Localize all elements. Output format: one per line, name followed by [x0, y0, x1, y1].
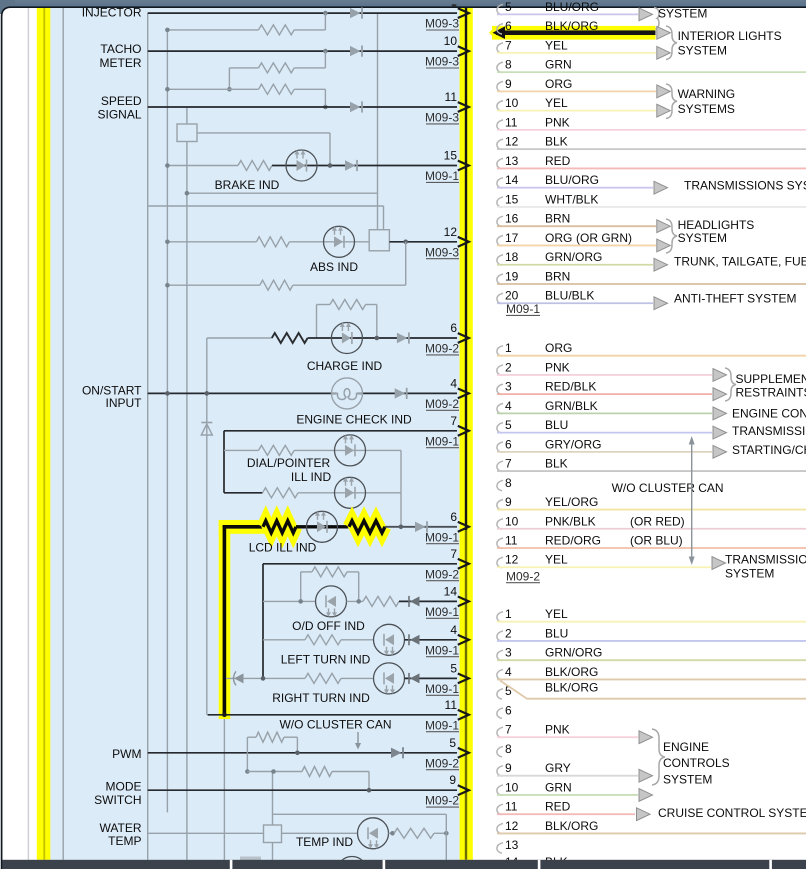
- svg-text:BLK: BLK: [545, 457, 568, 471]
- arrow exit turn-loop top: [458, 559, 469, 569]
- svg-text:5: 5: [505, 418, 512, 432]
- svg-text:YEL: YEL: [545, 38, 568, 52]
- LED TEMP2 bottom cut circle: [337, 857, 368, 869]
- left margin divider line: [27, 8, 29, 860]
- destination arrow pin5 b2 TRANSMISSION: [713, 426, 727, 439]
- left page-fold yellow band: [37, 8, 51, 860]
- svg-text:CRUISE CONTROL SYSTEM: CRUISE CONTROL SYSTEM: [658, 806, 806, 820]
- wire vertical x=369 mid row to MODE: [368, 772, 370, 791]
- direction arrow left at pin 6: [493, 26, 506, 39]
- wire injector pull loop horizontal y=29.9: [167, 29, 258, 31]
- left page-fold seam wire: [43, 8, 45, 860]
- svg-text:TRUNK, TAILGATE, FUEL DOOR: TRUNK, TAILGATE, FUEL DOOR: [674, 254, 806, 268]
- svg-text:ORG: ORG: [545, 341, 572, 355]
- bus wire B6 x=272.5 lower: [272, 843, 274, 860]
- diode D5 on CHARGE wire: [397, 333, 408, 343]
- svg-text:7: 7: [450, 414, 457, 428]
- wire BLU pin 2: [497, 640, 806, 642]
- svg-text:4: 4: [450, 623, 457, 637]
- wire LCD black to LED: [296, 525, 306, 528]
- svg-text:TRANSMISSIONS SYSTEM: TRANSMISSIONS SYSTEM: [684, 179, 806, 193]
- arrow exit PWM: [458, 748, 469, 758]
- wire O/D loop vertical right x=358.7: [358, 572, 360, 602]
- junction dot at (392.5,833.3): [390, 831, 395, 836]
- svg-text:(OR GRN): (OR GRN): [576, 231, 632, 245]
- wire bus B7 x=247.4 PWM to mid row: [246, 753, 248, 772]
- arrow exit LEFT TURN: [458, 635, 469, 645]
- destination arrow pin9 b3: [639, 769, 653, 782]
- wire BLK/ORG pin 12: [497, 832, 806, 834]
- svg-text:W/O CLUSTER CAN: W/O CLUSTER CAN: [279, 718, 391, 732]
- wire ABS lower loop y=285.2: [167, 284, 259, 286]
- bus wire B3 x=186.9 upper: [186, 107, 188, 124]
- svg-text:SYSTEM: SYSTEM: [678, 231, 727, 245]
- resistor R11 LCD highlighted: [263, 521, 296, 533]
- LED LEFT TURN IND: [374, 624, 405, 655]
- svg-text:(OR BLU): (OR BLU): [630, 534, 683, 548]
- svg-text:19: 19: [505, 269, 519, 283]
- svg-text:8: 8: [505, 476, 512, 490]
- svg-text:TRANSMISSION: TRANSMISSION: [725, 553, 806, 567]
- svg-text:RESTRAINTS: RESTRAINTS: [736, 385, 806, 399]
- wire O/D LED to resistor: [347, 600, 364, 602]
- bus wire B2 x=167.4: [166, 30, 168, 813]
- wire BLK/ORG pin 5 b3 diagonal: [500, 681, 806, 699]
- svg-text:STARTING/CHARGING: STARTING/CHARGING: [732, 443, 806, 457]
- svg-text:6: 6: [505, 437, 512, 451]
- svg-text:9: 9: [505, 77, 512, 91]
- LED LCD ILL IND: [307, 511, 338, 542]
- wire RIGHT TURN LED to exit black: [405, 677, 458, 679]
- arrow exit W/O CLUSTER CAN: [458, 710, 469, 720]
- highlight burst pin 6 start: [489, 27, 501, 39]
- wire BRN pin 16: [497, 225, 656, 227]
- wire speed loop vertical x=325.4: [324, 89, 326, 107]
- resistor R16 RIGHT TURN: [305, 673, 341, 683]
- wire LEFT TURN resistor to LED: [341, 639, 374, 641]
- resistor R3 speed loop: [259, 84, 295, 94]
- highlight yellow pin 6 row: [492, 26, 656, 40]
- LED BRAKE IND: [286, 150, 317, 181]
- svg-text:17: 17: [505, 231, 519, 245]
- right fold wire lower olive segment: [465, 530, 467, 860]
- pin 4 hook: [497, 403, 503, 414]
- svg-text:YEL: YEL: [545, 96, 568, 110]
- svg-text:M09-2: M09-2: [425, 756, 459, 770]
- svg-text:11: 11: [505, 115, 518, 129]
- svg-text:BRN: BRN: [545, 269, 570, 283]
- junction dot at (167.4,89.3): [165, 87, 170, 92]
- svg-text:GRN/ORG: GRN/ORG: [545, 646, 602, 660]
- svg-text:M09-2: M09-2: [425, 397, 459, 411]
- svg-text:4: 4: [505, 399, 512, 413]
- svg-text:PNK: PNK: [545, 115, 570, 129]
- svg-text:10: 10: [505, 514, 519, 528]
- svg-text:M09-1: M09-1: [425, 530, 459, 544]
- svg-text:BRN: BRN: [545, 212, 570, 226]
- svg-text:PNK/BLK: PNK/BLK: [545, 514, 596, 528]
- svg-text:15: 15: [444, 149, 458, 163]
- diode D7 on LCD exit wire: [415, 522, 426, 532]
- arrow exit CHARGE: [458, 333, 469, 343]
- junction dot at (358.7,601.4): [356, 599, 361, 604]
- svg-text:16: 16: [505, 212, 519, 226]
- svg-text:5: 5: [505, 0, 512, 14]
- svg-text:PNK: PNK: [545, 723, 570, 737]
- arrow exit SPEED: [458, 102, 469, 112]
- svg-text:BLK/ORG: BLK/ORG: [545, 19, 598, 33]
- svg-text:INJECTOR: INJECTOR: [82, 6, 142, 20]
- wire BLU pin 5: [497, 432, 712, 434]
- svg-text:BLK: BLK: [545, 135, 568, 149]
- wire CHARGE bypass loop top y=304.5: [317, 304, 331, 306]
- wire CHARGE loop vertical left x=316.5: [316, 305, 318, 339]
- svg-text:M09-1: M09-1: [425, 169, 459, 183]
- svg-text:ORG: ORG: [545, 231, 572, 245]
- LED O/D OFF IND: [316, 586, 347, 617]
- svg-text:M09-2: M09-2: [425, 567, 459, 581]
- destination arrow pin7: [657, 46, 671, 59]
- wire ABS feed A y=193.2: [187, 192, 378, 194]
- svg-text:5: 5: [450, 661, 457, 675]
- annotation double arrow vertical: [691, 443, 693, 558]
- LED ABS IND: [324, 226, 355, 257]
- svg-text:RIGHT TURN IND: RIGHT TURN IND: [272, 691, 370, 705]
- wire turn-loop top signal y=563.8: [263, 563, 457, 565]
- svg-text:4: 4: [450, 376, 457, 390]
- svg-text:INPUT: INPUT: [106, 396, 143, 410]
- bus wire B4 x=206.8: [206, 338, 208, 715]
- svg-text:10: 10: [505, 96, 519, 110]
- wire tacho loop vertical right x=325.4: [324, 51, 326, 68]
- svg-text:2: 2: [505, 626, 512, 640]
- svg-text:ILL IND: ILL IND: [291, 470, 332, 484]
- junction dot at (376.8,338): [375, 336, 380, 341]
- wire tacho loop vertical left x=229.4: [228, 68, 230, 89]
- resistor R5 ABS: [256, 237, 289, 247]
- pin 13 hook: [497, 158, 503, 169]
- pin 9 hook: [497, 81, 503, 92]
- svg-text:14: 14: [444, 584, 458, 598]
- destination arrow pin20 ANTI-THEFT: [654, 297, 668, 310]
- wire YEL pin 12: [497, 566, 711, 568]
- arrow exit ON/START: [458, 389, 469, 399]
- svg-text:YEL/ORG: YEL/ORG: [545, 495, 598, 509]
- svg-text:RED: RED: [545, 154, 571, 168]
- wire vertical x=330 into BRAKE row: [329, 133, 331, 166]
- resistor R15 LEFT TURN: [305, 635, 341, 645]
- svg-text:4: 4: [505, 665, 512, 679]
- wire ABS loop vertical x=405.7: [405, 242, 407, 285]
- resistor R2 tacho loop: [259, 63, 295, 73]
- svg-text:M09-1: M09-1: [506, 302, 540, 316]
- lamp ENGINE CHECK IND: [332, 378, 363, 409]
- wire PWM signal: [148, 752, 457, 754]
- wire speed loop horizontal y=89.3: [167, 88, 258, 90]
- svg-text:TEMP IND: TEMP IND: [296, 835, 353, 849]
- wire LCD black LED to resistor2: [338, 525, 349, 528]
- ABS splice box S2: [369, 230, 389, 251]
- svg-text:TEMP: TEMP: [108, 834, 141, 848]
- resistor R17 PWM bypass: [256, 732, 284, 742]
- svg-text:BRAKE IND: BRAKE IND: [215, 178, 280, 192]
- svg-text:BLU/ORG: BLU/ORG: [545, 173, 599, 187]
- wire LCD gray segment to exit: [385, 526, 457, 528]
- wire LCD black through LED circle: [306, 525, 338, 528]
- svg-text:5: 5: [449, 736, 456, 750]
- wire BLK/ORG pin 6 highlighted black: [496, 30, 656, 35]
- wire ORG pin 1: [497, 355, 806, 357]
- junction dot at (405.7,241.8): [403, 240, 408, 245]
- wire TEMP LED to resistor: [389, 832, 395, 834]
- diagram frame left border line: [62, 8, 64, 860]
- wire vertical x=401 DIAL to LCD junction: [400, 450, 402, 526]
- svg-text:1: 1: [505, 607, 512, 621]
- diode D8 left-pointing on O/D wire: [410, 596, 420, 606]
- svg-text:LCD ILL IND: LCD ILL IND: [249, 540, 317, 554]
- wire YEL pin 10: [497, 110, 656, 112]
- svg-text:8: 8: [505, 58, 512, 72]
- brace pin5: [654, 7, 659, 29]
- destination arrow pin10 b3: [639, 789, 653, 802]
- wire PNK pin 2: [497, 374, 712, 376]
- bottom collapsed panel bar: [3, 860, 806, 869]
- wire ON/START signal: [148, 392, 457, 394]
- wire LCD highlighted vertical black x=224.4: [223, 525, 227, 716]
- arrow exit DIAL: [458, 426, 469, 436]
- pin 6 hook: [497, 442, 503, 453]
- svg-text:M09-2: M09-2: [506, 569, 540, 583]
- svg-text:6: 6: [450, 510, 457, 524]
- pin 15 hook: [497, 197, 503, 208]
- pin 8 hook b2: [497, 480, 503, 491]
- wire PWM bypass vertical right x=297.4: [296, 737, 298, 753]
- svg-text:BLK/ORG: BLK/ORG: [545, 819, 598, 833]
- wire PWM bypass vertical left x=247.4: [246, 737, 248, 753]
- junction dot at (263,678.4): [261, 676, 266, 681]
- svg-text:M09-2: M09-2: [425, 794, 459, 808]
- resistor R19 TEMP: [394, 828, 434, 838]
- svg-text:GRY: GRY: [545, 761, 571, 775]
- svg-text:M09-1: M09-1: [425, 643, 459, 657]
- wire GRN/ORG pin 18: [497, 264, 653, 266]
- bus wire B5 gray continuation below W/O CAN x=224.4: [223, 717, 225, 860]
- svg-text:12: 12: [505, 819, 519, 833]
- svg-text:CHARGE IND: CHARGE IND: [307, 359, 383, 373]
- pin 1 hook: [497, 612, 503, 623]
- svg-text:W/O CLUSTER CAN: W/O CLUSTER CAN: [612, 481, 724, 495]
- junction dot ABS left: [165, 240, 170, 245]
- svg-text:13: 13: [505, 154, 519, 168]
- svg-text:TRANSMISSION SYS: TRANSMISSION SYS: [732, 424, 806, 438]
- wire O/D bypass loop top y=571.9: [301, 571, 312, 573]
- junction dot ABS loop left: [165, 283, 170, 288]
- junction dot at (297.4,752.8): [295, 751, 300, 756]
- svg-text:RED: RED: [545, 800, 571, 814]
- svg-text:PWM: PWM: [112, 747, 141, 761]
- svg-text:M09-1: M09-1: [425, 605, 459, 619]
- svg-text:INTERIOR LIGHTS: INTERIOR LIGHTS: [678, 29, 782, 43]
- wire O/D loop vertical left x=300.7: [300, 572, 302, 602]
- junction dot at (247.4,771.5): [245, 769, 250, 774]
- svg-text:M09-3: M09-3: [425, 111, 459, 125]
- svg-text:ANTI-THEFT SYSTEM: ANTI-THEFT SYSTEM: [674, 292, 796, 306]
- right page-fold yellow band: [460, 8, 473, 860]
- svg-text:ORG: ORG: [545, 77, 572, 91]
- arrow exit O/D: [458, 597, 469, 607]
- resistor R10 DIAL row2: [263, 488, 298, 498]
- pin 11 hook: [497, 538, 503, 549]
- arrow exit BRAKE: [458, 161, 469, 171]
- wire BRN pin 19: [497, 283, 806, 285]
- wire BLK pin 12: [497, 148, 806, 150]
- wire PNK pin 11: [497, 129, 806, 131]
- wire CHARGE loop vertical right x=376.8: [376, 305, 378, 339]
- svg-text:BLK/ORG: BLK/ORG: [545, 680, 598, 694]
- brace ENGINE CONTROLS b3: [652, 729, 665, 785]
- wire PWM bypass top: [247, 736, 256, 738]
- wire BLK/ORG pin 4: [497, 678, 806, 680]
- brace pins 9-10: [666, 84, 677, 119]
- wire LEFT TURN row gray: [263, 639, 305, 641]
- resistor R9 DIAL row1: [259, 445, 295, 455]
- LED TEMP IND: [358, 818, 389, 849]
- resistor R4 BRAKE: [238, 161, 272, 171]
- pin 7 hook: [497, 43, 503, 54]
- svg-text:3: 3: [505, 646, 512, 660]
- svg-text:WHT/BLK: WHT/BLK: [545, 192, 598, 206]
- wire WHT/BLK pin 15: [497, 206, 806, 208]
- wire horizontal y=814.3: [273, 813, 447, 815]
- junction dot at (446.3,833.3): [444, 831, 449, 836]
- svg-text:2: 2: [505, 360, 512, 374]
- svg-text:SPEED: SPEED: [101, 94, 142, 108]
- bottom bar gap 1: [230, 860, 233, 869]
- junction dot at (369,790.2): [367, 788, 372, 793]
- svg-text:10: 10: [444, 34, 458, 48]
- svg-text:8: 8: [505, 742, 512, 756]
- svg-text:ENGINE: ENGINE: [663, 740, 709, 754]
- arrow exit ABS: [458, 237, 469, 247]
- svg-text:M09-1: M09-1: [425, 434, 459, 448]
- junction dot at (186.9,193.2): [185, 191, 190, 196]
- svg-text:GRN/BLK: GRN/BLK: [545, 399, 598, 413]
- bus wire B6 x=272.5 upper: [272, 772, 274, 826]
- diode D4 on BRAKE wire: [345, 160, 356, 170]
- pin 2 hook: [497, 365, 503, 376]
- svg-text:SWITCH: SWITCH: [94, 793, 141, 807]
- svg-text:9: 9: [449, 773, 456, 787]
- wire ABS black from box to exit: [389, 241, 457, 243]
- wire BLU/ORG pin 14: [497, 187, 653, 189]
- junction dot loop1 left: [165, 28, 170, 33]
- svg-text:13: 13: [505, 838, 519, 852]
- diagram light blue background: [50, 8, 459, 860]
- junction dot at (400.9,526.8): [399, 525, 404, 530]
- pin 8 hook: [497, 62, 503, 73]
- brace pins 6-7: [666, 26, 677, 60]
- wire RIGHT TURN stub from highlighted bus: [226, 677, 305, 679]
- svg-text:BLU: BLU: [545, 626, 568, 640]
- resistor R12 LCD highlighted right: [349, 521, 385, 533]
- wire tacho loop horizontal y=67.9: [229, 67, 258, 69]
- pin 16 hook: [497, 216, 503, 227]
- svg-text:BLU/BLK: BLU/BLK: [545, 289, 594, 303]
- wire O/D black to exit: [399, 600, 457, 602]
- svg-text:ENGINE CHECK IND: ENGINE CHECK IND: [296, 412, 412, 426]
- wire O/D row gray: [263, 600, 316, 602]
- splice box S1 on bus B3: [177, 124, 197, 142]
- pin 3 hook: [497, 384, 503, 395]
- bottom bar gap 3: [538, 860, 541, 869]
- destination arrow pin2 b2: [713, 369, 727, 382]
- wire WATER TEMP row: [148, 832, 264, 834]
- pin 11 hook: [497, 804, 503, 815]
- arrow exit TACHO: [458, 46, 469, 56]
- pin 5 b3 hook and number: [497, 689, 503, 700]
- wire PNK/BLK pin 10: [497, 528, 806, 530]
- svg-text:20: 20: [505, 289, 519, 303]
- wire DIAL row2 y=492.8 black segment: [224, 492, 263, 494]
- svg-text:ENGINE CONTROLS: ENGINE CONTROLS: [732, 406, 806, 420]
- wire CHARGE black through LED: [308, 337, 457, 339]
- diode D11 left-pointing on RIGHT TURN wire: [410, 673, 420, 683]
- pin 20 hook: [497, 293, 503, 304]
- junction dot at (325.4,107): [323, 105, 328, 110]
- component box S3 WATER TEMP on B6: [264, 825, 282, 843]
- diode D6 on ON/START wire: [395, 388, 406, 398]
- svg-text:CONTROLS: CONTROLS: [663, 756, 730, 770]
- svg-text:METER: METER: [100, 56, 142, 70]
- pin 9 hook: [497, 500, 503, 511]
- svg-text:GRN: GRN: [545, 58, 572, 72]
- svg-text:SUPPLEMENTAL: SUPPLEMENTAL: [736, 372, 806, 386]
- resistor R14 O/D right: [363, 596, 399, 606]
- junction dot at (229.4,89.3): [227, 87, 232, 92]
- pin 5 partial row BLU/ORG: [497, 4, 503, 15]
- svg-text:TACHO: TACHO: [100, 42, 141, 56]
- pin 2 hook: [497, 631, 503, 642]
- wire GRN/ORG pin 3: [497, 659, 806, 661]
- wire GRN/BLK pin 4: [497, 412, 712, 414]
- pin 18 hook: [497, 255, 503, 266]
- highlight LCD horizontal yellow: [219, 520, 267, 534]
- svg-text:7: 7: [505, 457, 512, 471]
- vertical wire x=377.5 from INJECTOR to ABS box: [377, 13, 379, 230]
- junction dot at (300.7,601.4): [298, 599, 303, 604]
- svg-text:18: 18: [505, 250, 519, 264]
- destination arrow pin9 WARNING: [657, 85, 671, 98]
- svg-text:14: 14: [505, 173, 519, 187]
- svg-text:YEL: YEL: [545, 607, 568, 621]
- bus wire B3 x=186.9 lower: [186, 142, 188, 860]
- pin 6 b3 hook: [497, 708, 503, 719]
- wire loop1 vertical x=325.4: [324, 13, 326, 30]
- pin 10 hook: [497, 785, 503, 796]
- wire CHARGE row gray from bus B4: [207, 337, 272, 339]
- svg-text:O/D OFF IND: O/D OFF IND: [292, 619, 365, 633]
- wire RIGHT TURN resistor to LED: [341, 677, 374, 679]
- wire BRAKE row gray segment: [167, 165, 238, 167]
- wire from splice box S1 to brake branch y=132.9: [197, 132, 330, 134]
- arrow exit RIGHT TURN: [458, 674, 469, 684]
- wire TEMP resistor to vertical: [434, 832, 446, 834]
- svg-text:6: 6: [450, 321, 457, 335]
- svg-text:3: 3: [505, 380, 512, 394]
- svg-text:9: 9: [505, 495, 512, 509]
- svg-text:12: 12: [505, 135, 519, 149]
- wire turn-loop left vertical black x=263: [262, 564, 264, 679]
